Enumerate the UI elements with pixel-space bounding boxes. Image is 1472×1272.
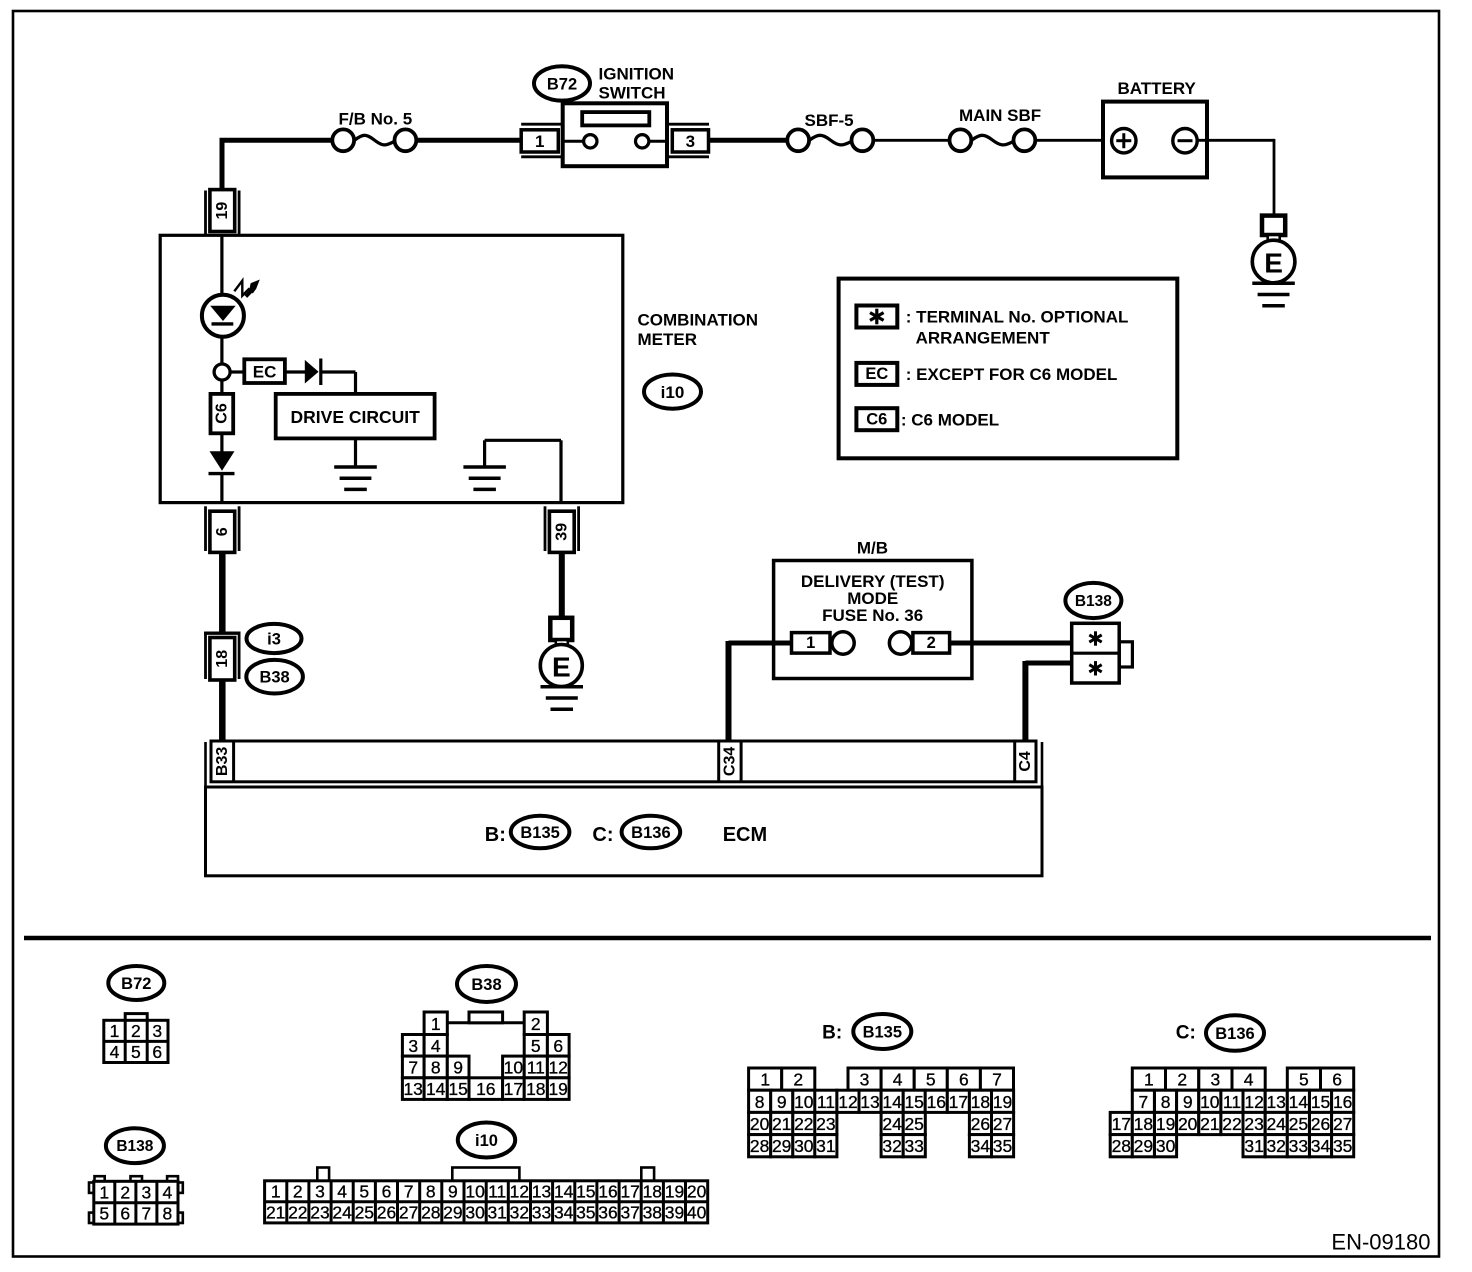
svg-text:16: 16 bbox=[476, 1079, 495, 1099]
svg-text:1: 1 bbox=[110, 1021, 120, 1041]
svg-text:6: 6 bbox=[382, 1182, 392, 1202]
svg-text:15: 15 bbox=[904, 1092, 923, 1112]
svg-text:11: 11 bbox=[1223, 1092, 1241, 1112]
svg-text:C:: C: bbox=[1176, 1023, 1196, 1044]
svg-text:8: 8 bbox=[426, 1182, 436, 1202]
svg-text:7: 7 bbox=[408, 1057, 418, 1077]
svg-text:28: 28 bbox=[421, 1203, 440, 1223]
svg-text:32: 32 bbox=[510, 1203, 529, 1223]
svg-text:34: 34 bbox=[554, 1203, 574, 1223]
svg-text:B135: B135 bbox=[520, 824, 559, 842]
svg-text:17: 17 bbox=[620, 1182, 639, 1202]
svg-text:18: 18 bbox=[214, 650, 231, 668]
svg-text:29: 29 bbox=[772, 1136, 791, 1156]
svg-text:18: 18 bbox=[643, 1182, 662, 1202]
svg-text:31: 31 bbox=[487, 1203, 506, 1223]
svg-text:B72: B72 bbox=[547, 75, 577, 93]
svg-text:1: 1 bbox=[535, 132, 544, 151]
svg-text:3: 3 bbox=[860, 1070, 870, 1090]
svg-text:METER: METER bbox=[638, 330, 698, 349]
svg-text:20: 20 bbox=[750, 1114, 770, 1134]
svg-text:1: 1 bbox=[99, 1183, 109, 1203]
svg-text:13: 13 bbox=[860, 1092, 879, 1112]
svg-text:1: 1 bbox=[1144, 1070, 1154, 1090]
svg-text:10: 10 bbox=[1200, 1092, 1220, 1112]
svg-text:3: 3 bbox=[315, 1182, 325, 1202]
svg-text:3: 3 bbox=[408, 1036, 418, 1056]
svg-text:5: 5 bbox=[531, 1036, 541, 1056]
svg-text:25: 25 bbox=[904, 1114, 923, 1134]
svg-text:4: 4 bbox=[110, 1042, 120, 1062]
svg-text:34: 34 bbox=[1311, 1136, 1331, 1156]
svg-text:25: 25 bbox=[355, 1203, 374, 1223]
svg-text:ARRANGEMENT: ARRANGEMENT bbox=[916, 328, 1051, 347]
svg-text:B33: B33 bbox=[214, 747, 231, 776]
svg-text:9: 9 bbox=[1183, 1092, 1193, 1112]
svg-text:27: 27 bbox=[1333, 1114, 1352, 1134]
svg-text:: C6 MODEL: : C6 MODEL bbox=[901, 411, 999, 430]
svg-text:E: E bbox=[1264, 248, 1283, 279]
svg-text:20: 20 bbox=[1178, 1114, 1198, 1134]
svg-text:36: 36 bbox=[598, 1203, 617, 1223]
svg-text:6: 6 bbox=[1332, 1070, 1342, 1090]
svg-text:8: 8 bbox=[755, 1092, 765, 1112]
svg-text:34: 34 bbox=[971, 1136, 991, 1156]
svg-text:2: 2 bbox=[927, 634, 936, 652]
svg-text:26: 26 bbox=[377, 1203, 396, 1223]
svg-text:17: 17 bbox=[1112, 1114, 1131, 1134]
svg-text:COMBINATION: COMBINATION bbox=[638, 310, 759, 329]
svg-text:6: 6 bbox=[553, 1036, 563, 1056]
svg-text:33: 33 bbox=[904, 1136, 923, 1156]
svg-text:40: 40 bbox=[687, 1203, 707, 1223]
svg-text:22: 22 bbox=[794, 1114, 813, 1134]
svg-text:30: 30 bbox=[794, 1136, 814, 1156]
svg-text:32: 32 bbox=[1266, 1136, 1285, 1156]
svg-text:31: 31 bbox=[816, 1136, 835, 1156]
svg-text:C6: C6 bbox=[213, 403, 230, 424]
svg-text:33: 33 bbox=[1289, 1136, 1308, 1156]
svg-text:10: 10 bbox=[504, 1057, 524, 1077]
svg-text:14: 14 bbox=[554, 1182, 574, 1202]
svg-text:24: 24 bbox=[1266, 1114, 1286, 1134]
svg-text:12: 12 bbox=[1244, 1092, 1263, 1112]
svg-text:7: 7 bbox=[1139, 1092, 1149, 1112]
svg-text:2: 2 bbox=[1177, 1070, 1187, 1090]
svg-text:: EXCEPT FOR C6 MODEL: : EXCEPT FOR C6 MODEL bbox=[906, 365, 1118, 384]
svg-text:11: 11 bbox=[488, 1182, 506, 1202]
svg-text:13: 13 bbox=[1266, 1092, 1285, 1112]
svg-text:19: 19 bbox=[548, 1079, 567, 1099]
svg-text:3: 3 bbox=[1211, 1070, 1221, 1090]
svg-text:BATTERY: BATTERY bbox=[1118, 79, 1197, 98]
svg-text:7: 7 bbox=[142, 1204, 152, 1224]
svg-text:35: 35 bbox=[576, 1203, 595, 1223]
svg-text:18: 18 bbox=[1134, 1114, 1153, 1134]
svg-text:4: 4 bbox=[1244, 1070, 1254, 1090]
svg-text:5: 5 bbox=[1299, 1070, 1309, 1090]
svg-text:28: 28 bbox=[1112, 1136, 1131, 1156]
svg-text:B136: B136 bbox=[1215, 1025, 1254, 1043]
svg-text:20: 20 bbox=[687, 1182, 707, 1202]
svg-text:23: 23 bbox=[310, 1203, 329, 1223]
svg-text:9: 9 bbox=[453, 1057, 463, 1077]
svg-text:10: 10 bbox=[794, 1092, 814, 1112]
svg-text:35: 35 bbox=[1333, 1136, 1352, 1156]
svg-text:3: 3 bbox=[152, 1021, 162, 1041]
svg-text:B72: B72 bbox=[121, 975, 151, 993]
svg-text:B135: B135 bbox=[863, 1024, 902, 1042]
svg-text:28: 28 bbox=[750, 1136, 769, 1156]
svg-text:1: 1 bbox=[806, 634, 815, 652]
svg-text:C:: C: bbox=[592, 824, 613, 846]
svg-text:33: 33 bbox=[532, 1203, 551, 1223]
svg-text:1: 1 bbox=[431, 1014, 441, 1034]
svg-text:EN-09180: EN-09180 bbox=[1331, 1230, 1430, 1255]
svg-text:5: 5 bbox=[926, 1070, 936, 1090]
svg-text:5: 5 bbox=[131, 1042, 141, 1062]
svg-text:14: 14 bbox=[426, 1079, 446, 1099]
svg-text:B138: B138 bbox=[116, 1138, 153, 1155]
svg-text:21: 21 bbox=[266, 1203, 285, 1223]
svg-text:4: 4 bbox=[893, 1070, 903, 1090]
svg-text:SWITCH: SWITCH bbox=[599, 84, 666, 103]
svg-text:2: 2 bbox=[793, 1070, 803, 1090]
svg-text:8: 8 bbox=[431, 1057, 441, 1077]
svg-text:13: 13 bbox=[532, 1182, 551, 1202]
svg-text:35: 35 bbox=[993, 1136, 1012, 1156]
svg-text:23: 23 bbox=[1244, 1114, 1263, 1134]
svg-text:38: 38 bbox=[643, 1203, 662, 1223]
svg-text:39: 39 bbox=[553, 523, 570, 541]
svg-text:B138: B138 bbox=[1075, 593, 1112, 610]
svg-text:19: 19 bbox=[665, 1182, 684, 1202]
svg-text:EC: EC bbox=[865, 365, 888, 383]
svg-text:i10: i10 bbox=[661, 383, 685, 402]
svg-text:1: 1 bbox=[760, 1070, 770, 1090]
svg-text:15: 15 bbox=[1311, 1092, 1330, 1112]
svg-text:6: 6 bbox=[214, 527, 231, 536]
svg-text:5: 5 bbox=[359, 1182, 369, 1202]
svg-text:31: 31 bbox=[1244, 1136, 1263, 1156]
svg-text:4: 4 bbox=[163, 1183, 173, 1203]
svg-text:24: 24 bbox=[332, 1203, 352, 1223]
svg-text:5: 5 bbox=[99, 1204, 109, 1224]
svg-text:9: 9 bbox=[448, 1182, 458, 1202]
svg-text:F/B No. 5: F/B No. 5 bbox=[339, 110, 413, 129]
svg-text:: TERMINAL No. OPTIONAL: : TERMINAL No. OPTIONAL bbox=[906, 308, 1129, 327]
svg-text:19: 19 bbox=[993, 1092, 1012, 1112]
svg-text:39: 39 bbox=[665, 1203, 684, 1223]
svg-text:27: 27 bbox=[993, 1114, 1012, 1134]
svg-text:14: 14 bbox=[882, 1092, 902, 1112]
svg-text:7: 7 bbox=[404, 1182, 414, 1202]
svg-text:12: 12 bbox=[510, 1182, 529, 1202]
svg-text:3: 3 bbox=[686, 132, 695, 151]
svg-text:C6: C6 bbox=[866, 410, 887, 428]
svg-text:29: 29 bbox=[1134, 1136, 1153, 1156]
svg-text:B:: B: bbox=[822, 1023, 842, 1044]
svg-text:12: 12 bbox=[838, 1092, 857, 1112]
svg-text:13: 13 bbox=[403, 1079, 422, 1099]
svg-text:32: 32 bbox=[882, 1136, 901, 1156]
svg-text:DRIVE CIRCUIT: DRIVE CIRCUIT bbox=[291, 407, 421, 427]
svg-text:18: 18 bbox=[526, 1079, 545, 1099]
svg-text:25: 25 bbox=[1289, 1114, 1308, 1134]
svg-text:21: 21 bbox=[1200, 1114, 1219, 1134]
svg-text:4: 4 bbox=[337, 1182, 347, 1202]
svg-text:2: 2 bbox=[120, 1183, 130, 1203]
svg-text:7: 7 bbox=[992, 1070, 1002, 1090]
svg-text:B:: B: bbox=[485, 824, 506, 846]
svg-text:23: 23 bbox=[816, 1114, 835, 1134]
svg-text:i10: i10 bbox=[475, 1132, 498, 1150]
svg-text:37: 37 bbox=[620, 1203, 639, 1223]
svg-text:9: 9 bbox=[777, 1092, 787, 1112]
svg-text:14: 14 bbox=[1289, 1092, 1309, 1112]
svg-text:27: 27 bbox=[399, 1203, 418, 1223]
svg-text:IGNITION: IGNITION bbox=[599, 64, 675, 83]
svg-text:16: 16 bbox=[598, 1182, 617, 1202]
svg-text:11: 11 bbox=[527, 1057, 545, 1077]
svg-text:i3: i3 bbox=[267, 631, 281, 649]
svg-text:B38: B38 bbox=[259, 669, 289, 687]
svg-text:19: 19 bbox=[1156, 1114, 1175, 1134]
svg-text:22: 22 bbox=[1222, 1114, 1241, 1134]
svg-text:4: 4 bbox=[431, 1036, 441, 1056]
svg-text:C4: C4 bbox=[1017, 751, 1034, 772]
svg-text:SBF-5: SBF-5 bbox=[805, 111, 854, 130]
svg-text:10: 10 bbox=[465, 1182, 485, 1202]
svg-text:16: 16 bbox=[1333, 1092, 1352, 1112]
svg-text:ECM: ECM bbox=[723, 824, 767, 846]
svg-text:16: 16 bbox=[927, 1092, 946, 1112]
svg-text:21: 21 bbox=[772, 1114, 791, 1134]
svg-text:2: 2 bbox=[131, 1021, 141, 1041]
svg-text:B136: B136 bbox=[631, 824, 670, 842]
svg-text:3: 3 bbox=[142, 1183, 152, 1203]
svg-text:E: E bbox=[552, 652, 571, 683]
svg-text:B38: B38 bbox=[471, 976, 501, 994]
svg-text:6: 6 bbox=[959, 1070, 969, 1090]
svg-text:2: 2 bbox=[531, 1014, 541, 1034]
svg-text:26: 26 bbox=[1311, 1114, 1330, 1134]
svg-text:M/B: M/B bbox=[857, 539, 888, 558]
svg-text:6: 6 bbox=[120, 1204, 130, 1224]
svg-text:15: 15 bbox=[576, 1182, 595, 1202]
svg-text:C34: C34 bbox=[721, 747, 738, 776]
svg-text:12: 12 bbox=[548, 1057, 567, 1077]
svg-text:6: 6 bbox=[152, 1042, 162, 1062]
svg-text:26: 26 bbox=[971, 1114, 990, 1134]
svg-text:30: 30 bbox=[1156, 1136, 1176, 1156]
svg-text:19: 19 bbox=[214, 202, 231, 220]
svg-text:1: 1 bbox=[271, 1182, 281, 1202]
svg-text:8: 8 bbox=[1161, 1092, 1171, 1112]
svg-text:2: 2 bbox=[293, 1182, 303, 1202]
svg-text:29: 29 bbox=[443, 1203, 462, 1223]
svg-text:17: 17 bbox=[504, 1079, 523, 1099]
svg-text:24: 24 bbox=[882, 1114, 902, 1134]
svg-text:EC: EC bbox=[253, 363, 277, 382]
svg-text:8: 8 bbox=[163, 1204, 173, 1224]
svg-text:FUSE No. 36: FUSE No. 36 bbox=[822, 606, 923, 625]
svg-text:18: 18 bbox=[971, 1092, 990, 1112]
svg-text:30: 30 bbox=[465, 1203, 485, 1223]
svg-text:15: 15 bbox=[448, 1079, 467, 1099]
svg-text:22: 22 bbox=[288, 1203, 307, 1223]
svg-text:MAIN SBF: MAIN SBF bbox=[959, 106, 1041, 125]
svg-text:11: 11 bbox=[817, 1092, 835, 1112]
svg-text:17: 17 bbox=[949, 1092, 968, 1112]
